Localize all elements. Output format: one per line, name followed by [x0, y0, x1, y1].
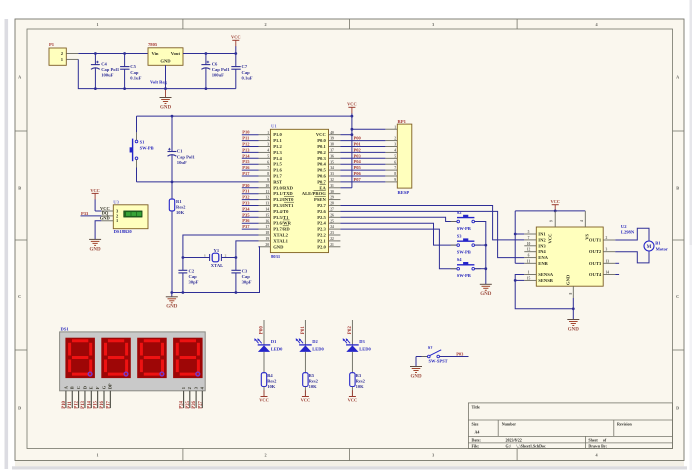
svg-text:2: 2: [225, 254, 227, 258]
ground symbol for S?: [410, 357, 428, 380]
svg-text:P33: P33: [242, 201, 250, 206]
svg-text:1: 1: [96, 452, 98, 457]
svg-text:13: 13: [265, 202, 269, 206]
wire OUT2 to motor: [615, 251, 649, 263]
svg-text:Sheet: Sheet: [588, 438, 598, 443]
svg-text:P3.2/INT0: P3.2/INT0: [273, 197, 294, 202]
wire net label P02: [348, 320, 353, 345]
svg-text:10K: 10K: [356, 384, 365, 389]
svg-text:P0.1: P0.1: [317, 144, 326, 149]
svg-text:6: 6: [528, 254, 530, 258]
svg-text:DS18B20: DS18B20: [114, 229, 133, 234]
svg-text:19: 19: [265, 237, 269, 241]
svg-text:SW-PB: SW-PB: [457, 226, 471, 231]
wires DS1 digit pins with net labels P24-P27: [180, 391, 204, 409]
svg-text:P02: P02: [354, 147, 362, 152]
switch S2 SW-PB: [451, 210, 481, 231]
svg-text:XTAL1: XTAL1: [273, 238, 288, 243]
svg-text:30pF: 30pF: [189, 280, 199, 285]
svg-text:23: 23: [330, 231, 334, 235]
svg-text:P13: P13: [242, 147, 250, 152]
svg-text:14: 14: [606, 271, 610, 275]
svg-text:P2.3: P2.3: [317, 227, 326, 232]
svg-text:VCC: VCC: [316, 132, 326, 137]
svg-text:Size: Size: [472, 421, 479, 426]
wire P2.3 to S4: [340, 229, 457, 269]
svg-text:S1: S1: [140, 140, 146, 145]
svg-text:R5: R5: [309, 373, 315, 378]
svg-text:P2.0: P2.0: [317, 244, 326, 249]
svg-text:C6: C6: [212, 61, 218, 66]
svg-text:22: 22: [330, 237, 334, 241]
VCC symbol below R5: [301, 390, 311, 402]
ground symbol below R1: [166, 291, 178, 310]
LED D2: [296, 338, 325, 372]
svg-text:P3.5/T1: P3.5/T1: [273, 215, 289, 220]
svg-text:Drawn By:: Drawn By:: [588, 444, 607, 449]
wire net label P00: [259, 320, 264, 345]
svg-text:RESP: RESP: [398, 190, 410, 195]
wire XTAL2 to crystal: [183, 235, 259, 258]
crystal Y1: [182, 248, 238, 268]
temperature sensor U3 DS18B20: [100, 200, 148, 235]
svg-text:0.1uF: 0.1uF: [130, 76, 141, 81]
svg-text:PSEN: PSEN: [314, 197, 326, 202]
wire VCC rail to reset circuit: [137, 115, 352, 117]
svg-text:4: 4: [267, 149, 269, 153]
svg-text:D1: D1: [271, 339, 277, 344]
svg-text:VCC: VCC: [301, 398, 311, 403]
svg-text:Title: Title: [472, 404, 480, 409]
svg-text:9: 9: [267, 178, 269, 182]
svg-text:VCC: VCC: [550, 199, 560, 204]
wire P2.6 to ENA: [340, 211, 524, 257]
svg-text:100uF: 100uF: [101, 73, 113, 78]
svg-text:Motor: Motor: [656, 246, 668, 251]
svg-text:P12: P12: [75, 400, 80, 408]
svg-text:Cap Pol1: Cap Pol1: [212, 67, 231, 72]
svg-text:P11: P11: [242, 136, 250, 141]
svg-text:1: 1: [96, 22, 98, 27]
svg-text:P34: P34: [242, 206, 250, 211]
svg-text:C1: C1: [177, 149, 183, 154]
svg-text:3: 3: [394, 143, 396, 147]
svg-text:16: 16: [265, 219, 269, 223]
wire OUT1 to motor: [615, 228, 649, 241]
svg-text:LED0: LED0: [312, 347, 324, 352]
wire 7805 Vout to VCC corner: [183, 53, 236, 55]
svg-text:D2: D2: [312, 339, 318, 344]
svg-text:EA: EA: [319, 185, 326, 190]
motor driver U2 L298N: [524, 211, 635, 309]
resistor R3: [350, 373, 366, 397]
svg-text:5: 5: [528, 230, 530, 234]
svg-text:C2: C2: [189, 268, 195, 273]
switch S? SW-SPST: [422, 345, 448, 364]
wire DQ net label P33: [81, 211, 102, 216]
svg-text:18: 18: [265, 231, 269, 235]
svg-text:26: 26: [330, 213, 334, 217]
switch S4 SW-PB: [451, 257, 481, 278]
svg-text:GND: GND: [568, 327, 580, 332]
svg-text:P00: P00: [354, 136, 362, 141]
svg-text:P35: P35: [242, 212, 250, 217]
svg-text:P36: P36: [242, 218, 250, 223]
svg-text:B: B: [18, 185, 21, 190]
VCC symbol above MCU: [347, 102, 357, 114]
svg-text:IN1: IN1: [538, 232, 546, 237]
ground symbol below switches: [480, 284, 492, 297]
svg-text:P01: P01: [301, 326, 306, 335]
svg-text:VCC: VCC: [259, 398, 269, 403]
svg-text:P3.6/WR: P3.6/WR: [273, 221, 291, 226]
svg-text:2: 2: [265, 22, 267, 27]
wire VCC vertical to MCU VCC and EA: [340, 114, 353, 188]
wire GND pin 20 down: [172, 247, 260, 293]
svg-text:10K: 10K: [309, 384, 318, 389]
svg-text:S?: S?: [428, 345, 433, 350]
svg-text:VCC: VCC: [90, 188, 100, 193]
svg-text:P2.6: P2.6: [317, 209, 326, 214]
svg-text:1: 1: [267, 131, 269, 135]
svg-text:E: E: [89, 386, 94, 389]
svg-text:9: 9: [394, 178, 396, 182]
svg-text:U2: U2: [621, 224, 627, 229]
svg-text:P31: P31: [242, 189, 250, 194]
wires DS1 segment pins with net labels P10-P17: [62, 391, 111, 409]
svg-text:0.1uF: 0.1uF: [242, 76, 253, 81]
svg-text:\..\Sheet1.SchDoc: \..\Sheet1.SchDoc: [515, 444, 546, 449]
svg-text:LED0: LED0: [271, 347, 283, 352]
svg-text:P04: P04: [354, 159, 362, 164]
svg-text:P1.2: P1.2: [273, 144, 282, 149]
wire switches to ground: [475, 222, 488, 285]
svg-text:15: 15: [527, 276, 531, 280]
svg-text:P01: P01: [354, 142, 362, 147]
svg-text:C: C: [18, 294, 21, 299]
svg-text:SENSB: SENSB: [538, 278, 553, 283]
svg-text:Res2: Res2: [309, 378, 319, 383]
svg-text:10K: 10K: [267, 384, 276, 389]
svg-text:15: 15: [265, 213, 269, 217]
svg-text:2: 2: [394, 137, 396, 141]
svg-text:P14: P14: [242, 153, 250, 158]
wire P1 pin2 to 7805 Vin: [78, 53, 148, 55]
svg-text:P1.4: P1.4: [273, 156, 282, 161]
svg-text:GND: GND: [160, 105, 172, 110]
svg-text:M: M: [647, 245, 652, 250]
svg-text:G:\: G:\: [506, 444, 512, 449]
svg-text:13: 13: [606, 259, 610, 263]
svg-text:RP1: RP1: [398, 119, 407, 124]
ground symbol below U2: [567, 309, 579, 333]
svg-text:P14: P14: [87, 400, 92, 408]
svg-text:RST: RST: [273, 179, 282, 184]
svg-text:C: C: [76, 386, 81, 389]
svg-text:P3.3/INT1: P3.3/INT1: [273, 203, 294, 208]
svg-text:2: 2: [265, 452, 267, 457]
svg-text:A4: A4: [475, 430, 480, 435]
svg-text:P0.4: P0.4: [317, 162, 326, 167]
svg-text:12: 12: [265, 196, 269, 200]
svg-text:File:: File:: [472, 444, 480, 449]
svg-text:P13: P13: [81, 400, 86, 408]
capacitor C3: [231, 258, 251, 294]
svg-text:D3: D3: [359, 339, 365, 344]
wire P2.4 to S3: [340, 223, 457, 245]
svg-text:17: 17: [265, 225, 269, 229]
svg-text:P2.1: P2.1: [317, 238, 326, 243]
svg-text:B: B: [70, 386, 75, 389]
svg-text:S2: S2: [457, 210, 463, 215]
svg-text:5: 5: [394, 154, 396, 158]
capacitor C5: [120, 52, 141, 90]
svg-text:Cap Pol1: Cap Pol1: [177, 154, 196, 159]
wire 7805 GND pin down: [164, 65, 167, 97]
svg-text:C3: C3: [242, 268, 248, 273]
wire RST net: [137, 181, 259, 183]
svg-text:GND: GND: [480, 292, 492, 297]
svg-text:Date:: Date:: [472, 438, 481, 443]
svg-text:VCC: VCC: [348, 398, 358, 403]
svg-text:1: 1: [528, 271, 530, 275]
svg-text:L298N: L298N: [621, 229, 635, 234]
svg-text:P24: P24: [180, 400, 185, 408]
svg-text:B: B: [676, 185, 679, 190]
svg-text:OUT3: OUT3: [589, 261, 602, 266]
svg-text:DS1: DS1: [61, 327, 70, 332]
svg-text:GND: GND: [160, 59, 171, 64]
svg-text:GND: GND: [273, 244, 284, 249]
svg-text:GND: GND: [166, 305, 178, 310]
svg-text:VCC: VCC: [231, 35, 241, 40]
title block: [468, 403, 672, 449]
svg-text:11: 11: [527, 259, 531, 263]
svg-text:P00: P00: [259, 326, 264, 335]
svg-text:3: 3: [432, 22, 434, 27]
svg-text:3: 3: [267, 143, 269, 147]
svg-text:XTAL: XTAL: [211, 263, 223, 268]
svg-text:SW-PB: SW-PB: [457, 249, 471, 254]
svg-text:P0.0: P0.0: [317, 138, 326, 143]
svg-text:39: 39: [330, 137, 334, 141]
svg-text:GND: GND: [90, 247, 102, 252]
svg-text:ALE/PROG: ALE/PROG: [302, 191, 326, 196]
svg-text:P3.4/T0: P3.4/T0: [273, 209, 289, 214]
svg-text:P11: P11: [68, 401, 73, 409]
wire RP1 pin1 to VCC: [352, 128, 386, 130]
svg-text:SW-PB: SW-PB: [140, 145, 154, 150]
svg-text:VCC: VCC: [347, 102, 357, 107]
svg-text:P10: P10: [242, 130, 250, 135]
svg-text:P0.3: P0.3: [317, 156, 326, 161]
svg-text:C: C: [676, 294, 679, 299]
svg-text:38: 38: [330, 143, 334, 147]
svg-text:DP: DP: [108, 383, 113, 389]
svg-text:OUT4: OUT4: [589, 272, 602, 277]
wire net label P03: [440, 351, 469, 356]
svg-text:P3.1/TXD: P3.1/TXD: [273, 191, 293, 196]
svg-text:7: 7: [528, 236, 530, 240]
svg-text:8: 8: [267, 172, 269, 176]
svg-text:31: 31: [330, 184, 334, 188]
motor B1: [644, 241, 668, 252]
svg-text:100uF: 100uF: [212, 73, 224, 78]
svg-text:R4: R4: [267, 373, 273, 378]
switch S3 SW-PB: [451, 234, 481, 255]
ground symbol below 7805: [160, 98, 172, 111]
VCC symbol for U3: [90, 188, 101, 211]
svg-text:7: 7: [267, 166, 269, 170]
capacitor C2: [178, 258, 198, 294]
svg-text:1: 1: [394, 125, 396, 129]
svg-text:7805: 7805: [148, 42, 158, 47]
VCC symbol above C7: [231, 35, 241, 54]
VCC symbol above U2: [550, 199, 560, 211]
wire P2.7 to IN2: [340, 206, 524, 240]
svg-text:P0.6: P0.6: [317, 174, 326, 179]
svg-text:P1.1: P1.1: [273, 138, 282, 143]
svg-text:37: 37: [330, 149, 334, 153]
svg-text:IN4: IN4: [538, 249, 546, 254]
wire P1 pin1 down to ground rail: [78, 59, 236, 88]
svg-text:P30: P30: [242, 183, 250, 188]
svg-text:1: 1: [204, 254, 206, 258]
svg-text:P07: P07: [354, 177, 362, 182]
svg-text:Y1: Y1: [214, 248, 220, 253]
svg-text:36: 36: [330, 154, 334, 158]
svg-text:P0.5: P0.5: [317, 168, 326, 173]
svg-text:30pF: 30pF: [242, 280, 252, 285]
wire net label P01: [301, 320, 306, 345]
svg-text:3: 3: [606, 248, 608, 252]
svg-text:SW-PB: SW-PB: [457, 273, 471, 278]
microcontroller U1 8031: [259, 124, 341, 259]
svg-text:ENB: ENB: [538, 261, 547, 266]
svg-text:A: A: [18, 74, 21, 79]
svg-text:7: 7: [394, 166, 396, 170]
svg-text:Volt Reg: Volt Reg: [150, 80, 168, 85]
svg-text:24: 24: [330, 225, 334, 229]
svg-text:4: 4: [580, 220, 584, 222]
svg-text:12: 12: [527, 248, 531, 252]
svg-text:2023/8/22: 2023/8/22: [506, 438, 522, 443]
svg-text:8: 8: [394, 172, 396, 176]
svg-text:U1: U1: [271, 124, 277, 129]
svg-text:C7: C7: [242, 64, 248, 69]
svg-text:P16: P16: [242, 165, 250, 170]
svg-text:Vin: Vin: [152, 51, 159, 56]
switch S1 SW-PB: [130, 116, 154, 182]
resistor pack RP1: [385, 119, 411, 195]
svg-text:C4: C4: [101, 61, 107, 66]
capacitor C4: [91, 52, 120, 90]
svg-text:5: 5: [267, 154, 269, 158]
svg-text:32: 32: [330, 178, 334, 182]
svg-text:40: 40: [330, 131, 334, 135]
LED D1: [254, 338, 283, 372]
svg-text:Cap: Cap: [242, 70, 251, 75]
svg-text:VS: VS: [585, 233, 590, 239]
VCC symbol below R3: [348, 390, 358, 402]
svg-text:27: 27: [330, 208, 334, 212]
svg-text:P17: P17: [242, 171, 250, 176]
svg-text:Cap: Cap: [242, 274, 251, 279]
svg-text:P2.7: P2.7: [317, 203, 326, 208]
wires P0 bus to RP1 with net labels P00-P07: [340, 136, 385, 182]
svg-text:P25: P25: [186, 400, 191, 408]
svg-text:A: A: [676, 74, 679, 79]
svg-text:P0.2: P0.2: [317, 150, 326, 155]
svg-text:Res2: Res2: [176, 204, 186, 209]
svg-text:1: 1: [181, 387, 186, 389]
svg-text:P12: P12: [242, 142, 250, 147]
svg-text:9: 9: [550, 220, 554, 222]
svg-text:OUT1: OUT1: [589, 238, 602, 243]
svg-text:P33: P33: [81, 211, 89, 216]
svg-text:F: F: [95, 386, 100, 389]
svg-text:10: 10: [527, 242, 531, 246]
connector P1: [49, 42, 78, 65]
svg-text:D: D: [82, 386, 87, 389]
svg-text:R3: R3: [356, 373, 362, 378]
resistor R1: [169, 182, 186, 293]
svg-text:P2.2: P2.2: [317, 233, 326, 238]
svg-text:P32: P32: [242, 195, 250, 200]
svg-text:C5: C5: [130, 64, 136, 69]
svg-text:P06: P06: [354, 171, 362, 176]
svg-text:Vout: Vout: [171, 51, 181, 56]
svg-text:P16: P16: [100, 400, 105, 408]
wire XTAL1 to crystal: [236, 241, 259, 258]
svg-text:34: 34: [330, 166, 334, 170]
svg-text:2: 2: [267, 137, 269, 141]
svg-text:D: D: [676, 406, 679, 411]
svg-text:Res2: Res2: [267, 378, 277, 383]
svg-text:GND: GND: [410, 374, 422, 379]
svg-text:ENA: ENA: [538, 255, 548, 260]
svg-text:20: 20: [265, 243, 269, 247]
svg-text:P1.7: P1.7: [273, 174, 282, 179]
svg-text:P10: P10: [62, 400, 67, 408]
svg-text:G: G: [101, 385, 106, 389]
svg-text:P1.0: P1.0: [273, 132, 282, 137]
svg-text:4: 4: [394, 149, 396, 153]
svg-text:Cap: Cap: [189, 274, 198, 279]
svg-text:11: 11: [266, 190, 270, 194]
svg-text:21: 21: [330, 243, 334, 247]
svg-text:D: D: [18, 406, 21, 411]
svg-text:P1.5: P1.5: [273, 162, 282, 167]
svg-text:P15: P15: [94, 400, 99, 408]
svg-text:P3.7/RD: P3.7/RD: [273, 227, 290, 232]
svg-text:35: 35: [330, 160, 334, 164]
wire P2.5 to S2: [340, 217, 457, 221]
svg-text:Cap Pol1: Cap Pol1: [101, 67, 120, 72]
voltage regulator 7805: [148, 42, 183, 84]
svg-text:P02: P02: [348, 326, 353, 335]
svg-text:10uF: 10uF: [177, 160, 187, 165]
svg-text:P0.7: P0.7: [317, 179, 326, 184]
svg-text:Revision: Revision: [617, 421, 632, 426]
svg-text:U3: U3: [113, 200, 119, 205]
svg-text:R1: R1: [176, 199, 182, 204]
net label wires P30-P37: [242, 183, 259, 229]
svg-text:P27: P27: [198, 400, 203, 408]
svg-text:14: 14: [265, 208, 269, 212]
svg-text:P1: P1: [49, 42, 55, 47]
svg-text:P37: P37: [242, 224, 250, 229]
